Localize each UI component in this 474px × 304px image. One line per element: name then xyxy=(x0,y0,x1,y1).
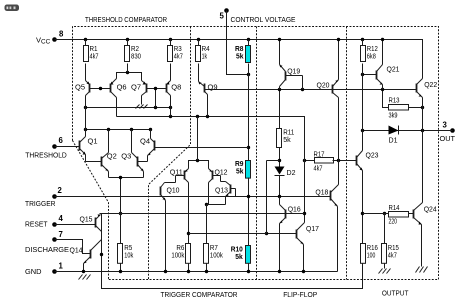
node 2/3 Vcc ref xyxy=(247,146,250,149)
wire pin6 to Q1 base xyxy=(55,146,80,148)
transistor Q12 xyxy=(209,167,228,204)
svg-text:Q21: Q21 xyxy=(387,65,400,74)
resistor R16 100 xyxy=(100,129,378,289)
resistor R8 5k (highlighted) xyxy=(235,38,251,76)
transistor Q18 xyxy=(315,185,338,272)
wire Q8 base/Q7 base drop xyxy=(155,89,157,108)
dashed divider control/trigger xyxy=(256,27,258,280)
transistor Q23 xyxy=(357,150,379,170)
resistor R6 100k xyxy=(171,183,190,274)
dashed right edge of threshold box xyxy=(149,27,191,280)
wire R6 top to Q17 base xyxy=(189,233,267,235)
svg-text:Q20: Q20 xyxy=(317,80,330,89)
wire pin5 to R8 bottom xyxy=(227,11,249,75)
resistor R5 10k xyxy=(118,178,134,274)
pin 6 THRESHOLD terminal xyxy=(25,136,67,159)
pin 7 DISCHARGE terminal xyxy=(25,230,69,254)
svg-text:THRESHOLD COMPARATOR: THRESHOLD COMPARATOR xyxy=(85,15,167,24)
resistor R11 5k xyxy=(277,90,295,167)
svg-text:GND: GND xyxy=(25,267,42,276)
ground under Q24 xyxy=(416,267,428,273)
svg-text:FLIP-FLOP: FLIP-FLOP xyxy=(283,290,317,299)
resistor R15 4k7 xyxy=(382,212,399,269)
resistor R12 6k8 xyxy=(361,38,378,62)
svg-text:5: 5 xyxy=(220,12,225,21)
svg-text:2: 2 xyxy=(58,186,63,195)
svg-text:Q8: Q8 xyxy=(171,82,181,91)
svg-text:4k7: 4k7 xyxy=(314,164,323,173)
svg-text:TRIGGER COMPARATOR: TRIGGER COMPARATOR xyxy=(161,290,238,299)
svg-text:Q15: Q15 xyxy=(80,214,93,223)
svg-text:Q16: Q16 xyxy=(288,204,301,213)
resistor R13 3k9 (horizontal) xyxy=(383,90,425,120)
pin 1 GND terminal xyxy=(25,261,64,276)
node 1/3 Vcc ref xyxy=(247,195,250,198)
transistor Q22 xyxy=(417,79,438,203)
svg-text:Q19: Q19 xyxy=(287,67,300,76)
resistor R10 5k (highlighted) xyxy=(231,245,251,274)
ground under Q14 xyxy=(79,275,91,280)
svg-text:Q6: Q6 xyxy=(117,82,127,91)
svg-text:8: 8 xyxy=(59,30,64,39)
pin 2 TRIGGER terminal xyxy=(25,186,63,208)
svg-text:Q7: Q7 xyxy=(131,82,141,91)
svg-text:4k7: 4k7 xyxy=(388,251,397,260)
svg-text:Q12: Q12 xyxy=(215,167,228,176)
transistor Q9 xyxy=(199,64,218,117)
transistor Q8 xyxy=(154,64,182,117)
svg-text:7: 7 xyxy=(59,230,63,239)
svg-text:3: 3 xyxy=(443,121,448,130)
svg-text:1: 1 xyxy=(59,261,64,270)
svg-text:D1: D1 xyxy=(389,136,398,145)
node bracket feed on mid bus xyxy=(196,115,199,118)
svg-text:100: 100 xyxy=(367,251,376,260)
transistor Q10 xyxy=(161,183,180,274)
svg-text:Q18: Q18 xyxy=(315,187,328,196)
transistor Q2 xyxy=(86,130,117,178)
svg-text:THRESHOLD: THRESHOLD xyxy=(25,150,67,159)
svg-text:1k: 1k xyxy=(202,52,208,61)
transistor Q4 xyxy=(140,130,155,162)
resistor R3 4k7 xyxy=(168,38,183,62)
wire Q15 collector line to flip-flop xyxy=(100,213,305,215)
resistor R17 4k7 (horizontal) xyxy=(303,150,357,173)
ground under R15 xyxy=(379,269,391,274)
svg-text:Q22: Q22 xyxy=(424,80,437,89)
wire R12 bottom to Q23 collector xyxy=(362,64,364,151)
svg-text:Q9: Q9 xyxy=(208,82,218,91)
transistor Q19 xyxy=(278,38,303,90)
node Q16 base on flip-flop vertical xyxy=(303,212,306,215)
svg-text:5k: 5k xyxy=(236,166,244,175)
svg-text:Q5: Q5 xyxy=(75,82,85,91)
transistor Q3 xyxy=(121,130,147,178)
svg-text:OUTPUT: OUTPUT xyxy=(382,289,409,298)
transistor Q7 xyxy=(131,81,156,105)
svg-text:R14: R14 xyxy=(389,203,400,212)
transistor Q11 xyxy=(170,167,189,182)
transistor Q21 xyxy=(361,38,400,90)
svg-text:DISCHARGE: DISCHARGE xyxy=(25,245,69,254)
svg-text:Q3: Q3 xyxy=(121,152,131,161)
transistor Q15 xyxy=(80,214,102,231)
svg-text:830: 830 xyxy=(131,52,141,61)
node Q9 collector on mid bus xyxy=(206,115,209,118)
wire comparator tail xyxy=(109,177,144,179)
diode D1 xyxy=(389,126,425,145)
svg-text:RESET: RESET xyxy=(25,220,48,229)
transistor Q20 xyxy=(317,38,341,98)
svg-text:TRIGGER: TRIGGER xyxy=(25,199,56,208)
transistor Q14 xyxy=(70,240,102,274)
wire Q20 collector to Q18 collector xyxy=(338,98,340,185)
resistor R9 5k (highlighted) xyxy=(235,159,251,178)
wire ref line to Q4 base xyxy=(155,147,249,149)
wire R8/R9/R10 divider string xyxy=(248,64,250,161)
svg-text:4k7: 4k7 xyxy=(90,52,99,61)
node on bus at Q19 base drop xyxy=(301,88,304,91)
wire mirror link line C xyxy=(86,129,151,131)
wire Q6/Q7 emitter bracket to R2 xyxy=(117,73,142,81)
svg-text:Q14: Q14 xyxy=(70,245,83,254)
svg-text:Q17: Q17 xyxy=(306,224,319,233)
dashed diagonal threshold left to trigger box xyxy=(73,141,109,280)
svg-text:5k: 5k xyxy=(236,52,244,61)
dashed divider flip-flop/output xyxy=(346,27,348,280)
resistor R7 100k xyxy=(204,203,224,273)
svg-text:5k: 5k xyxy=(283,135,291,144)
pin 3 OUT terminal xyxy=(440,121,456,143)
wire R9 to R10 xyxy=(248,178,250,246)
svg-text:6k8: 6k8 xyxy=(367,52,376,61)
svg-text:Q23: Q23 xyxy=(366,150,379,159)
svg-text:Q10: Q10 xyxy=(167,186,180,195)
svg-text:4k7: 4k7 xyxy=(174,52,183,61)
transistor Q13 xyxy=(215,182,236,205)
node Q8 collector on mid bus xyxy=(169,115,172,118)
svg-text:D2: D2 xyxy=(287,168,296,177)
wire mirror link line A xyxy=(86,107,171,109)
svg-text:100k: 100k xyxy=(210,251,223,260)
svg-text:Q13: Q13 xyxy=(215,185,228,194)
wire reset to Q15 base xyxy=(55,224,96,226)
svg-text:Q24: Q24 xyxy=(424,204,437,213)
svg-text:100k: 100k xyxy=(171,251,184,260)
resistor R2 830 xyxy=(125,38,142,62)
transistor Q24 xyxy=(414,203,437,267)
wire GND rail xyxy=(55,271,338,273)
wire VCC rail xyxy=(55,40,423,79)
svg-text:5k: 5k xyxy=(235,252,243,261)
transistor Q16 xyxy=(278,197,305,274)
ground under Q7 xyxy=(136,105,148,109)
svg-text:10k: 10k xyxy=(124,251,133,260)
svg-text:6: 6 xyxy=(59,136,64,145)
svg-text:Q4: Q4 xyxy=(140,137,150,146)
resistor R14 220 (horizontal) xyxy=(363,203,414,226)
transistor Q1 xyxy=(80,137,98,162)
wire Q13 emitter to R7 top xyxy=(207,204,226,206)
wire Q11/Q12 emitter bracket and feed xyxy=(189,161,209,169)
transistor Q5 xyxy=(75,64,101,96)
transistor Q6 xyxy=(99,79,127,117)
wire Q5/Q1 collector vertical xyxy=(85,96,87,137)
svg-text:CONTROL VOLTAGE: CONTROL VOLTAGE xyxy=(231,15,296,24)
resistor R4 1k xyxy=(196,38,210,62)
wire trigger line pin2 to Q18 base xyxy=(55,196,331,198)
wire mid bus to R17 corner xyxy=(117,117,305,223)
svg-text:4: 4 xyxy=(59,214,64,223)
pin 8 VCC terminal xyxy=(36,30,64,46)
wire discharge to Q14 base xyxy=(55,240,91,254)
wire output line with D1 xyxy=(363,130,453,132)
node on bus at Q21 emitter / R13 xyxy=(381,88,384,91)
svg-text:Q2: Q2 xyxy=(107,152,117,161)
svg-text:OUT: OUT xyxy=(440,134,456,143)
transistor Q17 xyxy=(265,161,319,274)
svg-text:R13: R13 xyxy=(389,96,400,105)
wire comparator bus (Q9 base to Q22 base) xyxy=(205,89,417,91)
section titles xyxy=(85,15,409,299)
diode D2 xyxy=(275,167,296,199)
svg-text:220: 220 xyxy=(389,217,398,226)
dashed outline: top edge xyxy=(73,27,439,280)
svg-text:Q11: Q11 xyxy=(170,167,183,176)
pin 4 RESET terminal xyxy=(25,214,64,229)
logo badge xyxy=(5,5,20,12)
svg-text:3k9: 3k9 xyxy=(389,111,398,120)
node on bus at Q19 emitter xyxy=(278,88,281,91)
resistor R1 4k7 xyxy=(84,38,99,62)
svg-text:Q1: Q1 xyxy=(88,137,98,146)
pin 5 terminal xyxy=(220,8,229,20)
